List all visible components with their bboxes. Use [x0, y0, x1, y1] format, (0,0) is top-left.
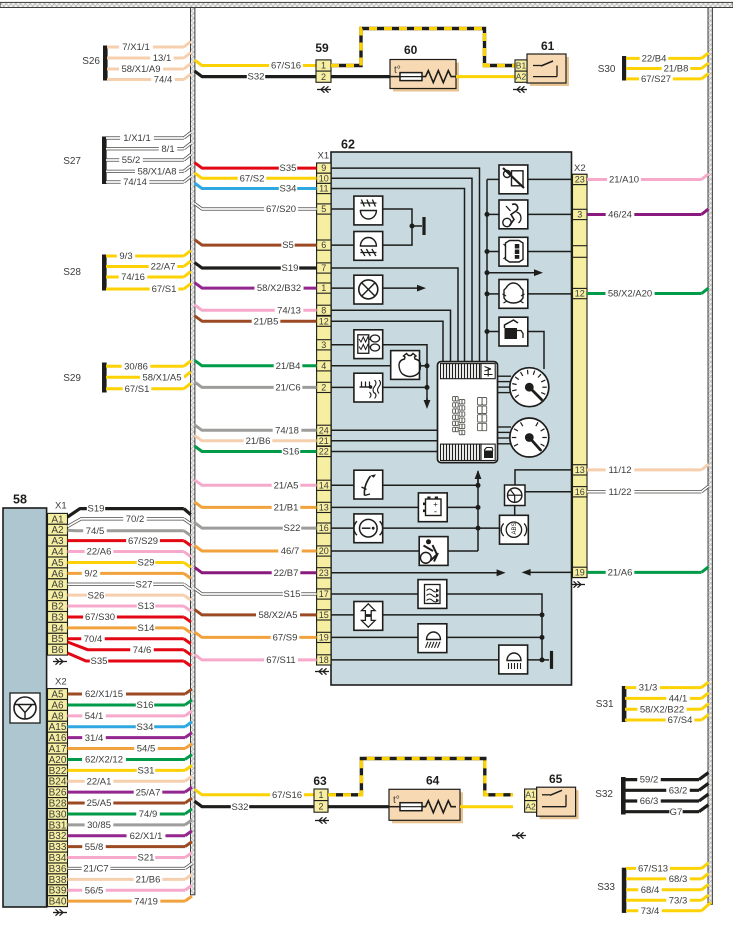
wire 31/3 from S31 — [625, 682, 709, 694]
svg-text:67/S27: 67/S27 — [641, 74, 671, 85]
svg-text:30/85: 30/85 — [87, 820, 111, 831]
wire 67/S29 from 58 A3 — [68, 536, 191, 547]
svg-text:74/14: 74/14 — [123, 177, 147, 188]
svg-text:S19: S19 — [282, 263, 299, 274]
harness arrow below 61 — [513, 86, 527, 92]
svg-text:73/3: 73/3 — [669, 895, 688, 906]
bus wires pins 9 10 11 into display — [331, 168, 480, 362]
svg-text:A16: A16 — [49, 733, 67, 744]
svg-text:B40: B40 — [49, 897, 67, 908]
resistor 64 thermal fuse box — [389, 774, 463, 824]
steering column switch block 58 — [3, 493, 47, 908]
svg-text:74/6: 74/6 — [133, 645, 152, 656]
wire 31/4 from 58 A16 — [68, 733, 193, 744]
wire 21/B6 to 62 X1 pin 21 — [195, 435, 317, 447]
wire 21/B4 to 62 X1 pin 4 — [195, 360, 317, 372]
wire 74/6 from 58 B5 diagonal — [68, 642, 191, 656]
wire 62/X1/1 from 58 B32 — [68, 831, 193, 842]
svg-text:22/A6: 22/A6 — [87, 547, 112, 558]
svg-text:B22: B22 — [49, 766, 67, 777]
wire S21 from 58 B34 — [68, 853, 193, 864]
wire S35 from 58 B6 diagonal — [68, 653, 191, 667]
block 58 connector X1 label — [55, 501, 67, 512]
svg-text:56/5: 56/5 — [85, 885, 104, 896]
wire 67/S11 to 62 X1 pin 18 — [195, 654, 317, 666]
wire 59/2 from S32 — [624, 773, 709, 786]
wire 30/86 from S29 — [106, 361, 191, 373]
svg-text:B39: B39 — [49, 886, 67, 897]
wire 46/7 to 62 X1 pin 20 — [195, 546, 317, 558]
wire S34 to 62 X1 pin 11 — [195, 183, 317, 195]
svg-text:2: 2 — [318, 801, 323, 811]
dashed black-yellow wire 59 pin1 to 61 pin B1 — [331, 29, 515, 66]
wire 63/2 from S32 — [624, 783, 709, 796]
arrow from bus to right — [487, 269, 543, 276]
vertical bus with up arrow near display — [475, 470, 482, 551]
svg-text:62: 62 — [341, 138, 355, 152]
svg-text:A1: A1 — [525, 790, 536, 800]
wire pin6 to fog icon — [331, 244, 354, 246]
svg-text:58/X1/A5: 58/X1/A5 — [142, 372, 181, 383]
svg-text:12: 12 — [319, 316, 329, 326]
svg-text:S32: S32 — [595, 789, 613, 800]
wire 58/X2/A20 from 62 X2 pin 12 — [587, 288, 709, 300]
svg-text:44/1: 44/1 — [669, 694, 688, 705]
svg-text:A5: A5 — [51, 558, 64, 569]
svg-text:73/4: 73/4 — [641, 906, 660, 917]
wire S5 to 62 X1 pin 6 — [195, 240, 317, 252]
svg-text:B34: B34 — [49, 853, 67, 864]
wire 58/X2/B22 from S31 — [625, 704, 709, 716]
speedometer gauge — [498, 368, 549, 407]
LCD display unit of cluster — [438, 362, 498, 463]
svg-text:21/A10: 21/A10 — [609, 175, 639, 186]
wire 44/1 from S31 — [625, 693, 709, 705]
svg-text:68/3: 68/3 — [669, 874, 688, 885]
wire 21/B6 from 58 B38 — [68, 874, 193, 885]
svg-text:B24: B24 — [49, 777, 67, 788]
svg-text:67/S13: 67/S13 — [638, 864, 668, 875]
svg-text:13: 13 — [575, 465, 585, 475]
connector S27 bar — [63, 137, 106, 185]
wire 11/22 from 62 X2 pin 16 — [587, 486, 709, 498]
svg-text:S27: S27 — [63, 156, 81, 167]
svg-text:74/13: 74/13 — [277, 305, 301, 316]
svg-text:67/S9: 67/S9 — [273, 633, 298, 644]
svg-text:S16: S16 — [137, 700, 154, 711]
svg-text:S28: S28 — [63, 267, 81, 278]
wire S16 from 58 A6 — [68, 700, 193, 711]
connector 63 label — [313, 774, 327, 788]
wire 21/C6 to 62 X1 pin 2 — [195, 382, 317, 394]
block 58 connector X2 label — [55, 677, 67, 688]
svg-text:S35: S35 — [280, 163, 297, 174]
svg-text:4: 4 — [321, 361, 326, 371]
svg-text:S31: S31 — [138, 765, 155, 776]
svg-text:X2: X2 — [55, 677, 67, 688]
wire S19 from 58 A1 — [68, 504, 191, 517]
wire 30/85 from 58 B31 — [68, 820, 193, 831]
svg-text:8: 8 — [321, 305, 326, 315]
svg-text:25/A7: 25/A7 — [136, 787, 161, 798]
harness bus bar right vertical — [708, 8, 712, 905]
connector 63 pins — [314, 789, 328, 812]
icon steering wheel in block 58 — [10, 693, 40, 723]
wire 67/S27 yellow — [626, 73, 709, 85]
wire 67/S20 to 62 X1 pin 5 — [195, 204, 317, 216]
svg-text:B28: B28 — [49, 798, 67, 809]
wire 74/9 from 58 B30 — [68, 809, 193, 820]
wire 55/8 from 58 B33 — [68, 842, 193, 853]
svg-text:74/4: 74/4 — [154, 75, 173, 86]
harness bus bar middle vertical — [191, 8, 195, 895]
svg-text:65: 65 — [549, 772, 563, 786]
svg-text:58/X2/B32: 58/X2/B32 — [257, 283, 301, 294]
svg-text:19: 19 — [575, 567, 585, 577]
svg-text:11/12: 11/12 — [608, 465, 631, 476]
icon high beam lights-on warning — [354, 196, 383, 225]
wire 21/A6 from 62 X2 pin 19 — [587, 567, 709, 579]
svg-text:23: 23 — [575, 175, 585, 185]
svg-text:62/X1/1: 62/X1/1 — [130, 831, 163, 842]
svg-text:B5: B5 — [51, 634, 64, 645]
harness arrow below 63 — [315, 817, 329, 823]
svg-text:16: 16 — [575, 487, 585, 497]
svg-text:31/3: 31/3 — [639, 683, 658, 694]
wire S13 from 58 B2 — [68, 601, 191, 612]
svg-text:67/S30: 67/S30 — [85, 612, 115, 623]
wires pins 24 21 22 into display left — [331, 430, 438, 451]
svg-text:B38: B38 — [49, 875, 67, 886]
icon seat belt fastened with wire pin 20 — [331, 537, 478, 566]
wire 74/19 from 58 B40 — [68, 896, 193, 907]
svg-text:6: 6 — [321, 240, 326, 250]
svg-text:X2: X2 — [574, 163, 586, 174]
connector 59 label — [315, 41, 329, 55]
svg-text:21/A5: 21/A5 — [274, 480, 299, 491]
svg-text:S35: S35 — [91, 656, 108, 667]
wire 46/24 from 62 X2 pin 3 — [587, 209, 709, 221]
wire S27 from 58 A8 — [68, 579, 191, 590]
svg-text:67/S29: 67/S29 — [128, 536, 158, 547]
icon engine check — [391, 351, 421, 380]
wire 62/X1/15 from 58 A5 — [68, 689, 193, 700]
svg-text:A20: A20 — [49, 755, 67, 766]
svg-text:21/B5: 21/B5 — [254, 316, 279, 327]
svg-text:B32: B32 — [49, 831, 67, 842]
svg-text:22/A7: 22/A7 — [151, 262, 176, 273]
svg-text:46/24: 46/24 — [608, 210, 632, 221]
svg-text:67/S16: 67/S16 — [271, 61, 301, 72]
svg-text:61: 61 — [541, 39, 555, 53]
svg-text:67/S4: 67/S4 — [668, 715, 693, 726]
svg-text:8/1: 8/1 — [161, 144, 174, 155]
wire 22/B7 to 62 X1 pin 23 — [195, 567, 317, 579]
wire yellow 64 to 65 pin A2 — [460, 805, 513, 808]
icon power steering small with wire to X2 pin 13 and 16 — [505, 470, 573, 506]
wire 67/S9 to 62 X1 pin 19 — [195, 632, 317, 644]
harness arrow below X1 of 62 — [315, 668, 329, 674]
svg-text:S26: S26 — [88, 590, 105, 601]
svg-text:19: 19 — [319, 632, 329, 642]
svg-text:1/X1/1: 1/X1/1 — [123, 133, 150, 144]
wire pin12 bus into display — [331, 321, 443, 361]
svg-text:B4: B4 — [51, 623, 64, 634]
svg-text:A4: A4 — [51, 547, 64, 558]
svg-text:1: 1 — [321, 283, 326, 293]
svg-text:58: 58 — [13, 493, 27, 507]
icon heated rear window with wire pin 17 — [331, 580, 542, 660]
wire pin5 to high-beam icon and ground — [331, 209, 424, 245]
wire 25/A7 from 58 B26 — [68, 787, 193, 798]
wire 21/B8 yellow — [626, 63, 709, 75]
svg-text:30/86: 30/86 — [124, 361, 148, 372]
svg-text:A6: A6 — [51, 700, 64, 711]
block 58 connector X2 pin cells — [48, 689, 68, 908]
svg-text:24: 24 — [319, 425, 329, 435]
svg-text:58/X2/A20: 58/X2/A20 — [608, 289, 652, 300]
icon warning lamp — [354, 275, 383, 304]
svg-text:9: 9 — [321, 163, 326, 173]
svg-text:A2: A2 — [51, 525, 64, 536]
wire 58/X1/A8 from S27 — [106, 166, 191, 178]
wire 21/B1 to 62 X1 pin 13 — [195, 502, 317, 514]
svg-text:31/4: 31/4 — [85, 733, 104, 744]
svg-text:11: 11 — [319, 184, 328, 194]
svg-text:9/2: 9/2 — [84, 568, 97, 579]
svg-text:64: 64 — [426, 774, 440, 788]
svg-text:25/A5: 25/A5 — [87, 798, 112, 809]
svg-text:S32: S32 — [248, 72, 265, 83]
svg-text:74/5: 74/5 — [86, 526, 105, 537]
wire 22/A1 from 58 B24 — [68, 776, 193, 787]
wire 66/3 from S32 — [624, 794, 709, 807]
svg-text:63: 63 — [313, 774, 327, 788]
svg-text:S13: S13 — [138, 601, 155, 612]
wire yellow 60 to 61 pin A2 — [456, 75, 515, 78]
svg-text:21: 21 — [319, 436, 329, 446]
svg-text:22/A1: 22/A1 — [87, 776, 112, 787]
wire S29 from 58 A5 — [68, 558, 191, 569]
svg-text:66/3: 66/3 — [640, 796, 659, 807]
wire 74/4 from S26 — [107, 74, 191, 86]
wire pin3 immobilizer to bus with down arrow — [331, 345, 430, 409]
svg-text:21/C7: 21/C7 — [83, 864, 108, 875]
wire 67/S1 from S29 — [106, 383, 191, 395]
wire S32 black from harness to 63 pin 2 — [195, 801, 315, 813]
svg-text:1: 1 — [318, 790, 323, 800]
svg-text:20: 20 — [319, 546, 329, 556]
wire 67/S1 from S28 — [106, 284, 191, 296]
wire 73/4 from S33 — [626, 902, 711, 917]
svg-text:S15: S15 — [284, 589, 301, 600]
svg-text:S30: S30 — [598, 64, 616, 75]
wire S32 black 63 pin2 to 64 — [328, 805, 391, 808]
wire 74/14 from S27 — [106, 177, 191, 189]
wire 54/5 from 58 A17 — [68, 744, 193, 755]
svg-text:S27: S27 — [136, 579, 153, 590]
icon front fog low beam — [354, 232, 383, 261]
svg-text:22: 22 — [319, 447, 329, 457]
wire 68/3 from S33 — [626, 873, 709, 885]
svg-text:21/B6: 21/B6 — [246, 436, 271, 447]
right icon bus vertical — [485, 179, 490, 361]
wire 67/S30 from 58 B3 — [68, 612, 191, 623]
facing arrows pin 23 X1 and pin 19 X2 — [331, 569, 573, 576]
svg-text:67/S1: 67/S1 — [125, 384, 150, 395]
svg-text:t°: t° — [393, 795, 400, 806]
svg-text:S26: S26 — [82, 56, 100, 67]
wire 22/A6 from 58 A4 — [68, 547, 191, 558]
relay 65 — [525, 772, 579, 819]
harness arrow below X2 pin 19 — [571, 581, 585, 587]
svg-text:70/4: 70/4 — [84, 634, 103, 645]
icon front fog lamp with wire pin 18 and ground — [331, 645, 552, 674]
wire 70/2 from 58 A2 — [68, 514, 191, 526]
wire 9/3 from S28 — [106, 251, 191, 263]
connector S29 bar — [63, 363, 106, 393]
connector S28 bar — [63, 255, 106, 291]
svg-text:B36: B36 — [49, 864, 67, 875]
svg-text:21/B4: 21/B4 — [276, 361, 301, 372]
relay 61 — [515, 39, 569, 86]
icon fuel low with wire to bus — [487, 317, 544, 369]
svg-text:B3: B3 — [51, 612, 64, 623]
harness arrow below 58 X1 — [53, 658, 67, 664]
svg-text:7: 7 — [321, 263, 326, 273]
svg-text:S31: S31 — [596, 699, 614, 710]
wire G7 from S32 — [624, 805, 709, 818]
svg-text:B26: B26 — [49, 788, 67, 799]
svg-text:-: - — [434, 507, 437, 517]
icon battery with wire pin 13 — [331, 493, 478, 522]
svg-text:A2: A2 — [525, 801, 536, 811]
wire 74/16 from S28 — [106, 272, 191, 284]
svg-text:62/X1/15: 62/X1/15 — [85, 689, 123, 700]
wire 9/2 from 58 A6 — [68, 568, 191, 579]
icon turn signal lever with wire pin 14 — [331, 470, 478, 499]
svg-text:A1: A1 — [51, 514, 64, 525]
block 62 connector X2 pin cells — [573, 174, 588, 577]
svg-text:2: 2 — [321, 72, 326, 82]
svg-text:B6: B6 — [51, 645, 64, 656]
svg-text:A15: A15 — [49, 722, 67, 733]
svg-text:60: 60 — [404, 43, 418, 57]
svg-text:B1: B1 — [516, 60, 527, 70]
resistor 60 thermal fuse box — [390, 43, 459, 92]
wire S26 from 58 A9 — [68, 590, 191, 601]
svg-text:21/A6: 21/A6 — [608, 567, 633, 578]
svg-text:62/X2/12: 62/X2/12 — [85, 755, 123, 766]
wire S32 black 59 pin2 to 60 — [331, 75, 391, 78]
svg-text:1: 1 — [321, 61, 326, 71]
svg-text:X1: X1 — [318, 151, 330, 162]
instrument cluster block 62 — [331, 138, 572, 686]
svg-text:ABS: ABS — [512, 522, 518, 534]
wire 74/18 to 62 X1 pin 24 — [195, 425, 317, 437]
svg-text:G7: G7 — [670, 807, 683, 818]
wire 58/X1/A9 from S26 — [107, 64, 191, 76]
wire 68/4 from S33 — [626, 884, 709, 896]
svg-text:A6: A6 — [51, 569, 64, 580]
wire pin8 bus into display — [331, 310, 451, 361]
svg-text:16: 16 — [319, 523, 329, 533]
wire 67/S13 from S33 — [626, 863, 709, 875]
tachometer gauge — [498, 418, 549, 457]
svg-text:2: 2 — [321, 382, 326, 392]
wire S35 to 62 X1 pin 9 — [195, 163, 317, 175]
svg-text:B33: B33 — [49, 842, 67, 853]
wire S14 from 58 B4 — [68, 623, 191, 634]
connector S31 bar — [596, 686, 627, 722]
wire 7/X1/1 from S26 — [107, 42, 191, 54]
svg-text:A8: A8 — [51, 580, 64, 591]
icon brake warning with wire pin 16 — [331, 514, 500, 543]
wire 74/5 from 58 A2 gray — [68, 526, 191, 537]
svg-text:S5: S5 — [282, 240, 294, 251]
block 62 connector X2 strip — [573, 163, 588, 578]
icon seat belt unbuckled with wires to X2 pin 23 — [487, 165, 573, 194]
svg-text:A17: A17 — [49, 744, 67, 755]
svg-text:67/S1: 67/S1 — [152, 284, 177, 295]
wire 54/1 from 58 A8 — [68, 711, 193, 722]
svg-text:14: 14 — [319, 480, 329, 490]
icon coolant temperature — [354, 373, 383, 402]
connector S32 bar right — [595, 777, 625, 815]
svg-text:21/B1: 21/B1 — [274, 503, 299, 514]
svg-text:67/S11: 67/S11 — [266, 655, 295, 666]
svg-text:67/S16: 67/S16 — [272, 790, 302, 801]
svg-text:74/9: 74/9 — [139, 809, 158, 820]
svg-text:58/X1/A8: 58/X1/A8 — [137, 166, 176, 177]
svg-text:17: 17 — [319, 589, 329, 599]
svg-text:74/18: 74/18 — [275, 425, 299, 436]
svg-text:23: 23 — [319, 568, 329, 578]
wire 55/2 from S27 — [106, 155, 191, 167]
wire 67/S16 from harness to 59 pin 1 — [195, 60, 317, 72]
wire 58/X2/A5 to 62 X1 pin 15 — [195, 609, 317, 621]
wire S15 to 62 X1 pin 17 — [195, 589, 317, 601]
svg-text:74/19: 74/19 — [134, 896, 158, 907]
svg-text:10: 10 — [319, 173, 329, 183]
svg-text:A9: A9 — [51, 591, 64, 602]
svg-text:70/2: 70/2 — [126, 514, 145, 525]
icon airbag with wires to X2 pin 3 — [487, 200, 573, 229]
harness arrow below 65 — [512, 832, 526, 838]
svg-text:59/2: 59/2 — [640, 775, 659, 786]
wire 25/A5 from 58 B28 — [68, 798, 193, 809]
svg-text:58/X1/A9: 58/X1/A9 — [121, 64, 160, 75]
svg-text:A8: A8 — [51, 711, 64, 722]
wire 22/A7 from S28 — [106, 261, 191, 273]
wire 67/S16 from harness to 63 pin 1 — [195, 789, 315, 801]
block 62 connector X1 pin cells — [317, 163, 331, 665]
svg-text:S22: S22 — [284, 523, 301, 534]
svg-text:S19: S19 — [88, 504, 105, 515]
connector S33 bar — [597, 868, 626, 913]
wire S32 black from harness to 59 pin 2 — [195, 71, 317, 83]
svg-text:11/22: 11/22 — [608, 487, 631, 498]
svg-text:63/2: 63/2 — [669, 785, 688, 796]
wire 62/X2/12 from 58 A20 — [68, 754, 193, 765]
wire pin1 to lamp icon with arrow — [331, 285, 426, 292]
svg-text:54/1: 54/1 — [85, 711, 104, 722]
svg-text:5: 5 — [321, 204, 326, 214]
wire 11/12 from 62 X2 pin 13 — [587, 464, 709, 476]
svg-text:9/3: 9/3 — [119, 251, 132, 262]
wire 22/B4 yellow — [626, 53, 709, 65]
svg-text:22/B7: 22/B7 — [274, 568, 299, 579]
